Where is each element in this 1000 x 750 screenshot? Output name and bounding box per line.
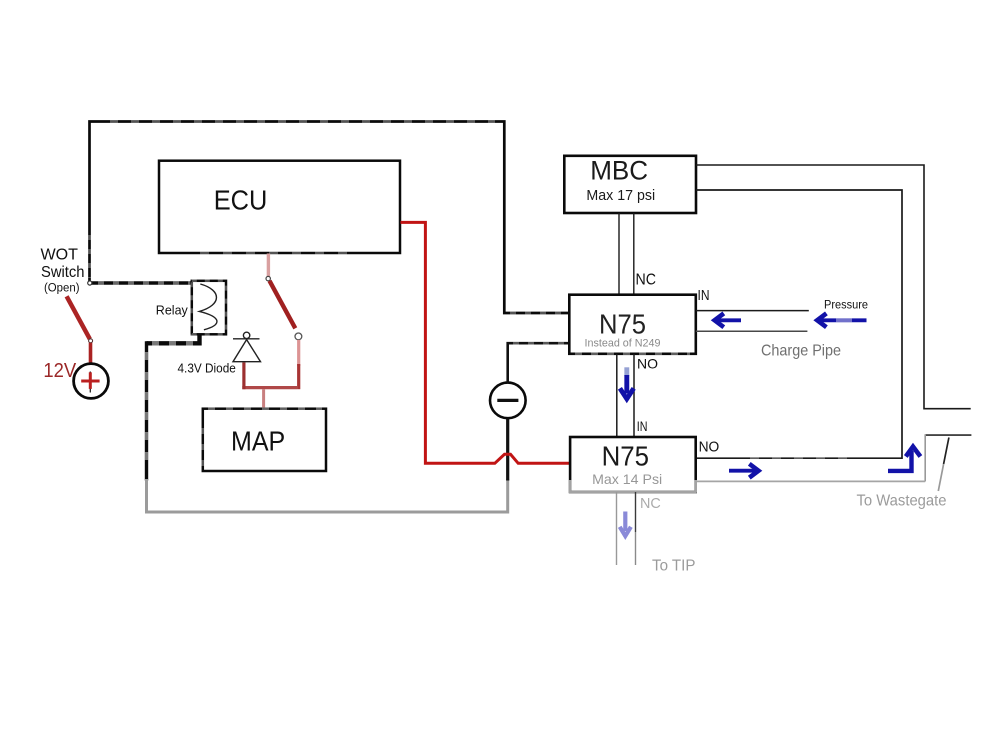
- node: switch S2 top terminal: [266, 276, 270, 280]
- MBC box: [564, 156, 696, 213]
- svg-text:MBC: MBC: [590, 156, 648, 186]
- wire: battery negative to top N75 (black): [508, 343, 570, 383]
- blue arrow: pressure from charge pipe: [817, 313, 866, 327]
- svg-text:MAP: MAP: [231, 426, 285, 457]
- svg-text:Max 17 psi: Max 17 psi: [586, 187, 655, 204]
- wire: ECU bottom to switch node (pink): [267, 254, 270, 277]
- svg-text:Pressure: Pressure: [824, 298, 868, 312]
- battery negative terminal circle: [490, 383, 526, 419]
- label: WOT Switch (Open): [41, 247, 85, 295]
- svg-text:Relay: Relay: [156, 303, 189, 317]
- blue arrow: bent up to wastegate: [888, 447, 920, 471]
- svg-text:Max 14 Psi: Max 14 Psi: [592, 471, 662, 487]
- wire: 12V source to switch (red): [89, 343, 93, 365]
- N75 valve (top) box: [569, 295, 696, 354]
- wire: ground bus (gray): [147, 479, 508, 512]
- switch terminal circle S2: [295, 333, 302, 340]
- hose: MBC outer edge to wastegate junction: [696, 165, 971, 409]
- hose: MBC to top N75 NC pipe pair: [618, 213, 620, 295]
- wire: ground bus to battery negative (black): [506, 419, 509, 481]
- svg-text:NO: NO: [699, 439, 720, 455]
- wire: switch S2 to diode (light red segments): [297, 340, 300, 366]
- switch blade S2 (red diagonal): [270, 281, 296, 329]
- switch terminal node S1: [89, 339, 93, 343]
- hose: MBC inner edge down to bottom N75 NO port: [696, 190, 902, 458]
- svg-text:WOT: WOT: [41, 247, 79, 264]
- svg-text:IN: IN: [637, 419, 648, 434]
- hose: bottom N75 NC to TIP pipe pair: [616, 492, 618, 565]
- hose: wastegate stub bottom edge (dark): [925, 434, 971, 436]
- svg-text:To Wastegate: To Wastegate: [857, 493, 947, 510]
- svg-text:N75: N75: [602, 441, 649, 472]
- svg-text:IN: IN: [698, 287, 710, 304]
- wire: relay to ground bus (black): [147, 334, 200, 343]
- zener diode D1 (4.3V): [233, 332, 261, 362]
- N75 valve (bottom) box: [570, 437, 696, 492]
- 12V source positive terminal: [74, 364, 109, 399]
- relay K1 box: [192, 281, 226, 335]
- svg-text:Charge Pipe: Charge Pipe: [761, 342, 841, 359]
- MAP sensor box: [203, 409, 326, 471]
- blue arrow: pressure into N75 IN: [715, 313, 741, 327]
- svg-text:Switch: Switch: [41, 264, 85, 281]
- hose: charge pipe tap upper edge: [696, 310, 809, 312]
- hose: top N75 NO to bottom N75 IN pipe pair: [616, 354, 618, 437]
- blue arrow: flow down to TIP (light): [620, 512, 631, 537]
- hose: charge pipe tap lower edge: [696, 330, 808, 332]
- hose: bottom N75 NO lower edge (gray): [696, 480, 925, 482]
- gray lower border of bottom N75: [569, 491, 697, 494]
- wire: WOT node to relay coil: [91, 281, 192, 284]
- svg-text:4.3V Diode: 4.3V Diode: [178, 361, 236, 376]
- node: WOT junction: [88, 281, 92, 285]
- wire: ECU to bottom N75 (red) with hop over ground wire: [401, 222, 571, 463]
- svg-text:NC: NC: [636, 272, 657, 289]
- blue arrow: flow down between valves: [620, 367, 634, 399]
- relay coil curve: [199, 284, 217, 330]
- wire: ECU outer loop from WOT node to top N75 left pin: [90, 122, 570, 314]
- leader line to wastegate stub: [944, 438, 949, 465]
- ECU box U1: [159, 161, 400, 253]
- svg-text:NO: NO: [637, 355, 658, 371]
- blue arrow: flow right toward wastegate: [729, 464, 759, 478]
- svg-text:To TIP: To TIP: [652, 557, 696, 574]
- hose: wastegate vertical edge (gray): [924, 434, 926, 481]
- svg-text:Instead of N249: Instead of N249: [585, 337, 661, 349]
- svg-text:12V: 12V: [43, 359, 76, 382]
- svg-text:N75: N75: [599, 309, 646, 340]
- svg-text:NC: NC: [640, 495, 661, 512]
- wire: branch to MAP (light red): [262, 389, 265, 409]
- switch blade S1 (open, red): [67, 296, 90, 339]
- svg-text:(Open): (Open): [44, 283, 80, 295]
- svg-text:ECU: ECU: [214, 185, 268, 216]
